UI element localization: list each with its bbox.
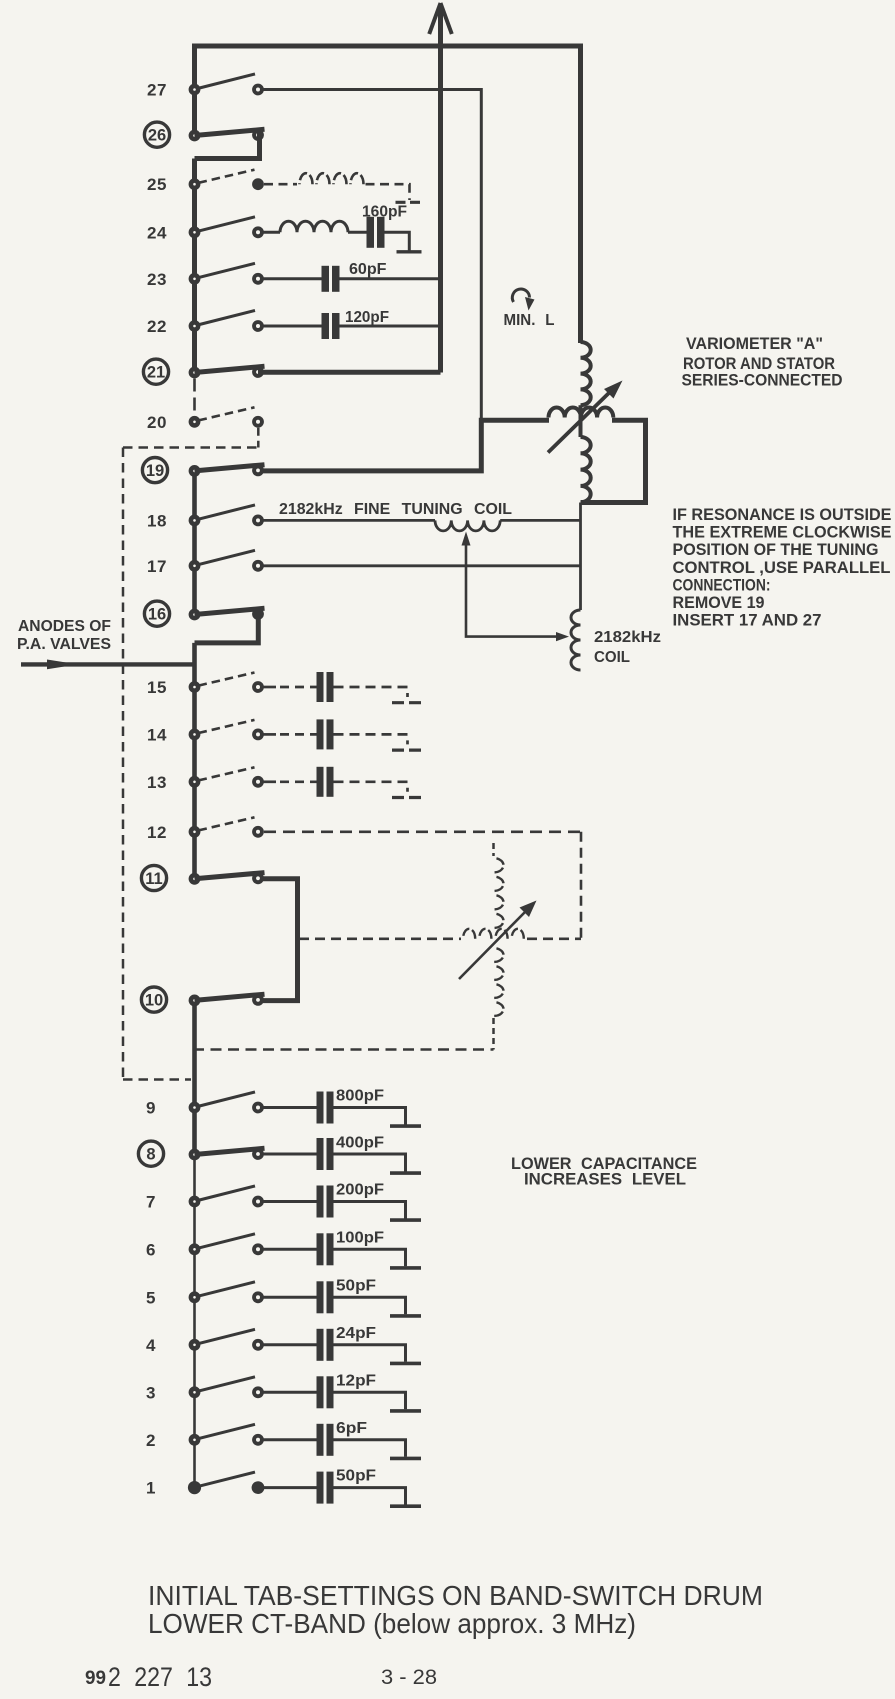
dashed variometer B bottom wire <box>193 1048 494 1051</box>
svg-text:2182kHz FINE TUNING COIL: 2182kHz FINE TUNING COIL <box>279 501 512 518</box>
wire tab24 to coil <box>264 231 281 234</box>
capacitor 24pF <box>317 1329 324 1361</box>
inductor L24 <box>280 221 348 232</box>
antenna output arrow <box>429 3 452 373</box>
wire variometer right loop <box>581 420 646 502</box>
wire tab9 to cap <box>262 1106 317 1109</box>
svg-text:CONNECTION:: CONNECTION: <box>673 576 771 594</box>
svg-text:50pF: 50pF <box>336 1468 376 1485</box>
ground (800pF tab 9) <box>390 1124 421 1128</box>
wire 6pF to ground <box>334 1440 406 1457</box>
capacitor 100pF <box>317 1233 324 1265</box>
switch tab 7 <box>189 1186 264 1207</box>
switch tab 8 <box>189 1148 265 1160</box>
svg-text:200pF: 200pF <box>336 1182 384 1199</box>
switch tab 22 <box>189 311 264 332</box>
ground (12pF tab 3) <box>390 1409 421 1413</box>
svg-text:18: 18 <box>147 511 167 530</box>
ground (160pF) <box>397 250 422 253</box>
wire tab21 to antenna line <box>258 370 441 375</box>
variometer A arrow <box>548 381 623 453</box>
capacitor 50pF <box>317 1472 324 1504</box>
variometer A link <box>579 405 583 437</box>
svg-text:23: 23 <box>147 270 167 289</box>
switch tab 18 <box>189 505 264 526</box>
wire bus 25-21 <box>192 159 197 373</box>
svg-text:14: 14 <box>147 725 167 744</box>
wire variometer bottom junction <box>579 503 582 611</box>
dashed variometer B right link <box>527 937 581 940</box>
variometer B stator stub <box>492 843 495 856</box>
svg-text:99: 99 <box>85 1668 106 1689</box>
svg-text:50pF: 50pF <box>336 1277 376 1294</box>
switch tab 14 <box>189 720 264 740</box>
dashed variometer B right side <box>580 832 583 939</box>
switch tab 5 <box>189 1282 264 1303</box>
svg-text:160pF: 160pF <box>362 204 407 221</box>
svg-text:SERIES-CONNECTED: SERIES-CONNECTED <box>682 372 843 390</box>
node label 11 (active) <box>141 865 166 890</box>
svg-text:6: 6 <box>146 1240 156 1259</box>
svg-text:6pF: 6pF <box>336 1420 367 1437</box>
svg-text:INITIAL TAB-SETTINGS ON BAND-S: INITIAL TAB-SETTINGS ON BAND-SWITCH DRUM <box>148 1580 763 1611</box>
wire tab14 dashed right <box>334 734 408 744</box>
switch tab 23 <box>189 263 264 284</box>
ground (200pF tab 7) <box>390 1218 421 1222</box>
wire tab8 to cap <box>262 1153 317 1156</box>
svg-text:MIN. L: MIN. L <box>504 312 555 329</box>
switch tab 24 <box>189 217 264 238</box>
terminal tab25 (dashed) <box>396 201 422 204</box>
dashed variometer B left link <box>299 937 461 940</box>
capacitor C14 (dashed line) <box>317 719 324 749</box>
svg-text:ROTOR AND STATOR: ROTOR AND STATOR <box>683 355 835 373</box>
svg-text:8: 8 <box>146 1146 155 1164</box>
switch tab 13 <box>189 767 264 787</box>
wire C160 to ground <box>385 232 410 250</box>
switch tab 15 <box>189 673 264 693</box>
ground (100pF tab 6) <box>390 1266 421 1270</box>
capacitor 60pF <box>322 266 330 292</box>
anodes input arrowhead <box>47 660 78 670</box>
terminal tab14 (dashed) <box>392 748 422 751</box>
svg-text:19: 19 <box>146 462 164 480</box>
svg-text:100pF: 100pF <box>336 1229 384 1246</box>
svg-text:60pF: 60pF <box>349 261 387 278</box>
svg-text:INCREASES LEVEL: INCREASES LEVEL <box>524 1171 686 1189</box>
wire tab14 dashed left <box>280 733 317 736</box>
variometer A stator coil <box>581 342 591 405</box>
switch tab 1 <box>188 1472 265 1494</box>
switch tab 11 <box>189 872 265 884</box>
wire bus 16-11 <box>192 643 197 879</box>
capacitor 120pF <box>322 313 330 339</box>
wire tab11-10 loop <box>258 879 298 1001</box>
svg-text:2182kHz: 2182kHz <box>594 629 661 646</box>
variometer A rotor coil <box>581 437 591 502</box>
capacitor C13 (dashed line) <box>317 767 324 797</box>
wire L24 to C160 <box>348 231 367 234</box>
capacitor 800pF <box>317 1092 324 1124</box>
node label 8 (active) <box>138 1141 163 1166</box>
capacitor 160pF <box>367 217 375 248</box>
wire tab4 to cap <box>262 1343 317 1346</box>
svg-text:CONTROL ,USE PARALLEL: CONTROL ,USE PARALLEL <box>673 559 891 577</box>
switch tab 12 <box>189 817 264 837</box>
wire tab19/27 to variometer A <box>258 420 549 471</box>
annotation arrow to coils <box>462 532 570 642</box>
ground (50pF tab 5) <box>390 1314 421 1318</box>
switch tab 10 <box>189 994 265 1006</box>
wire tab2 to cap <box>262 1438 317 1441</box>
svg-text:4: 4 <box>146 1336 156 1355</box>
anodes input wire <box>21 662 195 666</box>
wire tab6 to cap <box>262 1248 317 1251</box>
svg-text:THE EXTREME CLOCKWISE: THE EXTREME CLOCKWISE <box>673 524 892 542</box>
svg-text:1: 1 <box>146 1479 156 1498</box>
wire variometer feed <box>578 44 583 344</box>
svg-text:17: 17 <box>147 557 167 576</box>
svg-text:9: 9 <box>146 1099 156 1118</box>
wire tab13 stub <box>264 780 277 783</box>
wire 50pF to ground <box>334 1297 406 1314</box>
wire bus 8-1 <box>193 1155 196 1488</box>
wire bus 10-8 <box>192 1000 197 1154</box>
svg-text:LOWER CT-BAND (below approx.: LOWER CT-BAND (below approx. 3 MHz) <box>148 1608 636 1639</box>
wire tab15 dashed left <box>280 686 317 689</box>
svg-text:INSERT 17 AND 27: INSERT 17 AND 27 <box>673 612 822 630</box>
svg-text:2 227 13: 2 227 13 <box>108 1662 212 1692</box>
svg-text:120pF: 120pF <box>345 309 389 326</box>
switch tab 3 <box>189 1377 264 1398</box>
svg-text:12pF: 12pF <box>336 1372 376 1389</box>
svg-text:3: 3 <box>146 1383 156 1402</box>
dashed drum region left side <box>122 448 125 1080</box>
wire fine coil to junction <box>500 519 580 522</box>
inductor L25 (dashed) <box>300 173 313 184</box>
wire tab15 dashed right <box>334 687 408 697</box>
svg-text:400pF: 400pF <box>336 1135 384 1152</box>
svg-text:ANODES OF: ANODES OF <box>18 618 111 635</box>
wire tab25 dashed stub <box>264 183 297 186</box>
wire 200pF to ground <box>334 1202 406 1219</box>
wire 800pF to ground <box>334 1108 406 1125</box>
terminal tab15 (dashed) <box>392 701 422 704</box>
node label 10 (active) <box>141 987 166 1012</box>
wire bus 27-26 <box>192 44 197 136</box>
dashed drum region top side <box>123 446 257 449</box>
svg-text:REMOVE 19: REMOVE 19 <box>673 594 765 612</box>
svg-text:27: 27 <box>147 81 167 100</box>
capacitor C15 (dashed line) <box>317 672 324 702</box>
inductor 2182kHz coil <box>571 610 581 670</box>
switch tab 6 <box>189 1234 264 1255</box>
switch tab 19 <box>189 465 265 477</box>
wire tab14 stub <box>264 733 277 736</box>
switch tab 2 <box>189 1424 264 1445</box>
capacitor 50pF <box>317 1281 324 1313</box>
ground (6pF tab 2) <box>390 1457 421 1461</box>
capacitor 6pF <box>317 1424 324 1456</box>
switch tab 20 <box>189 407 264 427</box>
svg-text:20: 20 <box>147 413 167 432</box>
svg-text:10: 10 <box>145 992 163 1010</box>
dashed drum region bottom side <box>123 1078 191 1081</box>
wire tab26 S-bend <box>195 132 260 159</box>
wire 100pF to ground <box>334 1249 406 1266</box>
wire 120pF to antenna line <box>340 325 441 328</box>
svg-text:26: 26 <box>148 127 166 145</box>
wire bus 19-16 <box>192 471 197 615</box>
wire 12pF to ground <box>334 1392 406 1409</box>
switch tab 17 <box>189 550 264 571</box>
svg-text:5: 5 <box>146 1288 156 1307</box>
wire bus 21-20 (dashed) <box>193 379 196 417</box>
switch tab 4 <box>189 1329 264 1350</box>
ground (400pF tab 8) <box>390 1171 421 1175</box>
wire tab13 dashed right <box>334 782 408 792</box>
variometer B stator coil <box>494 858 504 873</box>
svg-text:POSITION OF THE TUNING: POSITION OF THE TUNING <box>673 541 879 559</box>
switch tab 27 <box>189 74 264 95</box>
switch tab 26 <box>189 129 265 141</box>
svg-text:3 - 28: 3 - 28 <box>381 1666 437 1689</box>
capacitor 200pF <box>317 1186 324 1218</box>
wire tab23 to cap <box>264 277 322 280</box>
wire tab7 to cap <box>262 1200 317 1203</box>
switch tab 9 <box>189 1092 264 1113</box>
wire tab22 to cap <box>264 325 322 328</box>
svg-text:2: 2 <box>146 1431 156 1450</box>
variometer B rotor hcoil <box>463 929 475 939</box>
wire tab12 dashed <box>264 830 581 833</box>
wire tab27 to variometer <box>263 90 481 420</box>
wire tab5 to cap <box>262 1296 317 1299</box>
wire tab13 dashed left <box>280 780 317 783</box>
svg-text:13: 13 <box>147 773 167 792</box>
wire 60pF to antenna line <box>340 277 441 280</box>
svg-text:IF RESONANCE IS OUTSIDE: IF RESONANCE IS OUTSIDE <box>673 506 892 524</box>
capacitor 12pF <box>317 1376 324 1408</box>
svg-text:COIL: COIL <box>594 649 630 666</box>
wire tab20 contact drop <box>257 428 260 448</box>
switch tab 25 <box>189 170 264 190</box>
wire tab1 to cap <box>262 1486 317 1489</box>
switch tab 21 <box>189 366 265 378</box>
node label 19 (active) <box>142 458 167 483</box>
svg-text:16: 16 <box>148 606 166 624</box>
capacitor 400pF <box>317 1138 324 1170</box>
svg-text:24pF: 24pF <box>336 1325 376 1342</box>
inductor fine tuning coil <box>435 520 500 531</box>
svg-text:11: 11 <box>145 870 162 888</box>
switch tab 16 <box>189 608 265 620</box>
svg-text:24: 24 <box>147 223 167 242</box>
svg-text:22: 22 <box>147 317 167 336</box>
ground (50pF tab 1) <box>390 1504 421 1508</box>
node label 16 (active) <box>144 601 169 626</box>
wire tab3 to cap <box>262 1391 317 1394</box>
variometer B bottom stub <box>492 1018 495 1050</box>
svg-text:12: 12 <box>147 823 167 842</box>
wire 400pF to ground <box>334 1154 406 1172</box>
variometer B arrow <box>459 901 537 980</box>
node label 26 (active) <box>144 122 169 147</box>
variometer B rotor coil <box>494 948 504 962</box>
svg-text:800pF: 800pF <box>336 1088 384 1105</box>
wire tab18 line <box>263 519 435 522</box>
svg-text:21: 21 <box>147 364 165 382</box>
svg-text:VARIOMETER "A": VARIOMETER "A" <box>686 335 823 353</box>
wire 50pF to ground <box>334 1488 406 1505</box>
wire tab17 line <box>263 564 581 567</box>
wire 24pF to ground <box>334 1345 406 1362</box>
wire top bus corner <box>195 44 581 49</box>
wire tab16 S-bend <box>195 612 259 643</box>
wire tab25 dashed tail <box>366 184 410 200</box>
svg-text:P.A. VALVES: P.A. VALVES <box>17 636 111 653</box>
node label 21 (active) <box>143 359 168 384</box>
wire tab15 stub <box>264 686 277 689</box>
svg-text:15: 15 <box>147 678 167 697</box>
svg-text:7: 7 <box>146 1193 156 1212</box>
ground (24pF tab 4) <box>390 1362 421 1366</box>
terminal tab13 (dashed) <box>392 796 422 799</box>
min-L rotation arrow <box>512 289 534 310</box>
variometer A rotor hcoil <box>549 408 614 418</box>
svg-text:25: 25 <box>147 175 167 194</box>
